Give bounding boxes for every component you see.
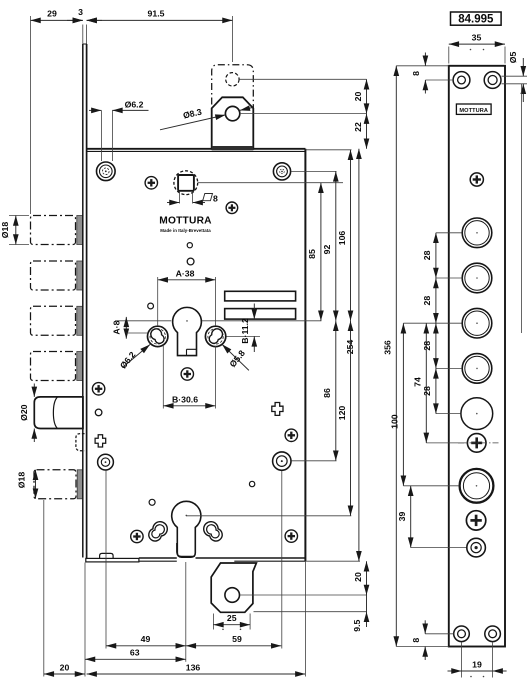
deadbolt lower Ø18 (dash-dot ghost) bbox=[34, 470, 76, 499]
plate bottom edge extension bbox=[396, 646, 449, 648]
dimension Ø18 (top bolts) bbox=[0, 216, 29, 245]
screw head left column bbox=[92, 383, 104, 395]
svg-text:91.5: 91.5 bbox=[148, 8, 165, 18]
faceplate front edge bbox=[82, 44, 84, 558]
pin P2 upper-right (Ø5.8) bbox=[205, 326, 225, 346]
bolt ring R1 bbox=[462, 218, 492, 248]
dimension 28 (R1-R2) bbox=[435, 233, 437, 278]
dimension B·11.2 bbox=[227, 304, 261, 353]
dimension 22 (tab hole to case top) bbox=[366, 114, 368, 149]
leader from spindle centre bbox=[198, 182, 343, 184]
dimension 20 (tab holes) bbox=[366, 79, 368, 113]
grommet hole lower-left bbox=[98, 454, 114, 470]
dimension 86 bbox=[335, 321, 337, 461]
svg-text:28: 28 bbox=[422, 386, 432, 396]
dimension 28 (R4-latch hole) bbox=[435, 368, 437, 413]
svg-text:28: 28 bbox=[422, 341, 432, 351]
dimension 28 (R2-R3) bbox=[435, 278, 437, 323]
dimension 106 bbox=[350, 150, 352, 321]
dimension Ø20 (latch) bbox=[19, 384, 34, 443]
dimension B·30.6 bbox=[163, 346, 215, 409]
svg-text:86: 86 bbox=[322, 388, 332, 398]
dimension Ø8.3 (diagonal leader) bbox=[160, 107, 253, 130]
square spindle hole 8mm bbox=[178, 175, 194, 191]
cylinder cam notch bbox=[187, 349, 197, 355]
svg-text:85: 85 bbox=[307, 249, 317, 259]
top tab hole ghost (dashed circle) bbox=[226, 73, 239, 86]
svg-text:25: 25 bbox=[227, 613, 237, 623]
leader from tab hole bbox=[240, 113, 367, 115]
knob widget left bbox=[95, 435, 106, 447]
small grommet lower bbox=[467, 538, 486, 557]
svg-text:8: 8 bbox=[411, 638, 421, 643]
svg-text:8: 8 bbox=[213, 193, 218, 203]
deadbolt B2 (dash-dot ghost) bbox=[31, 261, 76, 290]
svg-text:8: 8 bbox=[411, 71, 421, 76]
svg-text:22: 22 bbox=[353, 122, 363, 132]
deadbolt B3 stub in faceplate bbox=[77, 306, 83, 335]
top mounting tab (solid) bbox=[212, 97, 254, 149]
deadbolt B1 (dash-dot ghost) bbox=[31, 216, 76, 245]
svg-text:Ø20: Ø20 bbox=[19, 404, 29, 421]
svg-text:92: 92 bbox=[322, 245, 332, 255]
dimension 85 bbox=[320, 183, 322, 321]
svg-text:Made in Italy-Brevettata: Made in Italy-Brevettata bbox=[160, 228, 211, 233]
brand plate MOTTURA logo bbox=[456, 104, 491, 114]
case left edge / faceplate back bbox=[86, 44, 88, 558]
hole in bottom tab bbox=[225, 588, 240, 603]
screw head top-left bbox=[145, 177, 157, 189]
dimension 59 bbox=[186, 645, 281, 647]
pin P3 lower-left bbox=[149, 522, 168, 541]
svg-text:9.5: 9.5 bbox=[352, 619, 362, 631]
dimension 39 bbox=[410, 486, 412, 548]
screw head bottom-left bbox=[131, 530, 143, 542]
svg-text:35: 35 bbox=[472, 32, 482, 42]
faceplate extension lines to top dimension bbox=[82, 25, 84, 46]
lower cylinder ring (knurled) bbox=[460, 469, 494, 503]
auxiliary latch bump bbox=[76, 434, 85, 451]
dimension Ø18 (lower bolt) bbox=[17, 470, 36, 499]
grommet hole mid-right bbox=[273, 452, 291, 470]
leader circled screw bbox=[426, 442, 466, 444]
svg-text:B·30.6: B·30.6 bbox=[172, 394, 198, 404]
svg-text:Ø18: Ø18 bbox=[17, 472, 27, 489]
svg-text:120: 120 bbox=[337, 406, 347, 421]
screw head bottom-right bbox=[285, 530, 297, 542]
svg-text:A·8: A·8 bbox=[111, 320, 121, 334]
leader small grommet bbox=[411, 547, 466, 549]
leader bottom tab lower edge bbox=[254, 611, 368, 613]
grommet hole top-right bbox=[273, 163, 290, 180]
case right edge bbox=[304, 149, 306, 561]
dimension A·38 bbox=[158, 268, 216, 326]
centreline through upper cylinder bbox=[115, 320, 171, 322]
svg-text:356: 356 bbox=[382, 340, 392, 355]
svg-text:3: 3 bbox=[78, 7, 83, 17]
dimension 120 bbox=[350, 321, 352, 516]
striker bar 1 bbox=[225, 291, 296, 301]
svg-text:84.995: 84.995 bbox=[458, 14, 494, 26]
dimension 19 bbox=[448, 642, 507, 678]
dimension Ø6.2 (top-left hole) bbox=[89, 100, 149, 161]
screw head below cylinder bbox=[181, 368, 193, 380]
svg-text:106: 106 bbox=[337, 231, 347, 246]
spindle hub circle bbox=[174, 171, 198, 195]
small hole D bbox=[249, 481, 254, 486]
deadbolt lower stub in faceplate bbox=[77, 470, 83, 499]
svg-text:MOTTURA: MOTTURA bbox=[459, 108, 488, 114]
svg-text:100: 100 bbox=[390, 414, 400, 429]
deadbolt B3 (dash-dot ghost) bbox=[31, 306, 76, 335]
deadbolt B1 stub in faceplate bbox=[77, 216, 83, 245]
dimension 8 (top) bbox=[411, 53, 453, 94]
latch hole (plain circle) bbox=[461, 398, 493, 430]
dimension 20 (case bottom to tab hole) bbox=[366, 561, 368, 595]
case bottom edge extension bbox=[305, 560, 360, 562]
dimension 92 bbox=[335, 171, 337, 320]
plate screw hole bottom-left bbox=[454, 626, 470, 642]
plate screw head lower bbox=[466, 511, 485, 530]
small hole B bbox=[187, 258, 194, 265]
leader grommet mid-right bbox=[292, 460, 337, 462]
dimension 254 bbox=[358, 149, 360, 561]
screw head right column bbox=[285, 429, 297, 441]
svg-text:63: 63 bbox=[130, 648, 140, 658]
small hole C (left of cylinder) bbox=[148, 303, 154, 309]
pin P4 lower-right bbox=[204, 522, 223, 541]
svg-text:A·38: A·38 bbox=[176, 268, 195, 278]
svg-text:20: 20 bbox=[60, 662, 70, 672]
plate screw hole top-right (Ø5) bbox=[484, 72, 501, 89]
dimension 356 bbox=[395, 66, 397, 647]
leader lower ring bbox=[403, 485, 459, 487]
dimension 28 (R3-R4) bbox=[435, 323, 437, 368]
dimension 35 bbox=[449, 32, 505, 63]
case top edge (double line) bbox=[87, 148, 306, 150]
svg-text:20: 20 bbox=[353, 92, 363, 102]
svg-text:59: 59 bbox=[232, 634, 242, 644]
small hole left column bbox=[95, 409, 102, 416]
dimension 8 (bottom) bbox=[411, 620, 454, 660]
hole Ø8.3 in top tab bbox=[225, 106, 239, 120]
euro cylinder lower (profile) bbox=[172, 501, 201, 557]
dimension 29 / 3 / 91.5 (top) bbox=[31, 7, 233, 214]
striker bar 2 bbox=[225, 309, 296, 320]
case bottom edge (double line) bbox=[139, 557, 177, 559]
leader ring R3 bbox=[403, 322, 461, 324]
bottom mounting tab bbox=[211, 563, 256, 612]
grommet hole top-left (Ø6.2) bbox=[97, 162, 116, 181]
dimension A·8 bbox=[111, 317, 148, 339]
stray extension line right bbox=[521, 84, 523, 333]
dimension 100 bbox=[402, 323, 404, 486]
top tab slot band bbox=[212, 146, 254, 150]
case top edge extension bbox=[305, 149, 351, 151]
knob widget right bbox=[272, 403, 283, 416]
bottom flange bar bbox=[86, 558, 139, 562]
top mounting tab (dash-dot retracted ghost) bbox=[212, 65, 254, 148]
svg-text:29: 29 bbox=[47, 8, 57, 18]
faceplate (edge view) outline bbox=[449, 66, 505, 647]
leader from top-right grommet bbox=[291, 170, 337, 172]
latch bolt Ø20 bbox=[34, 397, 83, 429]
bolt ring R3 bbox=[462, 308, 492, 338]
deadbolt B2 stub in faceplate bbox=[77, 261, 83, 290]
dimension Ø6.2 (left pin, diagonal) bbox=[118, 345, 150, 371]
svg-text:MOTTURA: MOTTURA bbox=[159, 215, 212, 226]
svg-text:39: 39 bbox=[397, 512, 407, 522]
dimension Ø5 bbox=[502, 52, 528, 102]
dimension 25 (bottom tab) bbox=[213, 613, 250, 630]
dimension 136 bbox=[87, 673, 306, 675]
svg-text:28: 28 bbox=[422, 296, 432, 306]
dimension Ø5.8 (right pin, diagonal) bbox=[222, 344, 249, 370]
case bottom cutout corner at stem bbox=[177, 543, 195, 556]
bolt ring R2 bbox=[462, 263, 492, 293]
small hole A bbox=[187, 243, 192, 248]
leaders ring centres for 28-chain bbox=[436, 232, 462, 234]
dimension 9.5 (tab hole to tab edge) bbox=[352, 595, 367, 632]
deadbolt B4 (dash-dot ghost) bbox=[31, 352, 76, 381]
latch bevel curve bbox=[53, 397, 57, 429]
svg-text:49: 49 bbox=[141, 634, 151, 644]
svg-text:Ø6.2: Ø6.2 bbox=[125, 100, 144, 110]
euro cylinder upper (profile) bbox=[173, 307, 202, 355]
svg-text:Ø18: Ø18 bbox=[0, 222, 10, 239]
leader lower cylinder centre bbox=[186, 515, 351, 517]
dimension square 8 bbox=[167, 192, 218, 204]
plate screw hole bottom-right bbox=[485, 626, 501, 642]
dimension 49 bbox=[106, 645, 186, 647]
flange stud bbox=[100, 553, 114, 558]
circled screw (aux latch) bbox=[458, 434, 500, 453]
faceplate top cap bbox=[83, 43, 87, 45]
bolt ring R4 bbox=[462, 354, 492, 384]
dimension 20 (bottom-left) bbox=[44, 673, 85, 675]
screw head upper-mid bbox=[226, 202, 238, 214]
small hole E bbox=[149, 499, 155, 505]
leader bottom tab hole bbox=[240, 594, 367, 596]
dimension 74 bbox=[425, 323, 427, 443]
plate screw head upper bbox=[470, 173, 483, 186]
part number label 84.995 bbox=[451, 12, 502, 26]
leader from tab ghost hole bbox=[239, 78, 366, 80]
deadbolt B4 stub in faceplate bbox=[77, 352, 83, 381]
svg-text:19: 19 bbox=[472, 659, 482, 669]
svg-text:74: 74 bbox=[412, 377, 422, 387]
svg-text:28: 28 bbox=[422, 250, 432, 260]
svg-text:B·11.2: B·11.2 bbox=[240, 318, 250, 344]
extension lines bottom bbox=[43, 500, 45, 677]
svg-text:136: 136 bbox=[186, 662, 201, 672]
svg-text:Ø5: Ø5 bbox=[508, 52, 518, 64]
svg-text:20: 20 bbox=[353, 572, 363, 582]
plate top edge extension bbox=[396, 65, 449, 67]
plate screw hole top-left bbox=[453, 72, 470, 89]
dimension 63 bbox=[85, 658, 186, 660]
pin P1 upper-left (Ø6.2) bbox=[148, 326, 168, 346]
